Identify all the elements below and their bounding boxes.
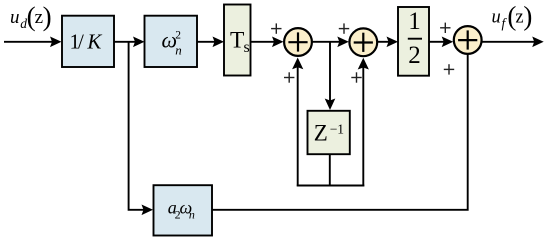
summing junction S3 [454, 26, 482, 54]
wire: Z^-1 output down to bus [329, 154, 331, 185]
wire: S2 to 1/2 block [377, 37, 398, 48]
svg-text:n: n [175, 42, 182, 57]
svg-text:): ) [523, 1, 532, 31]
block Ts [224, 5, 251, 76]
svg-text:u: u [492, 7, 501, 27]
svg-text:−1: −1 [330, 122, 344, 137]
summing junction S2 [349, 28, 377, 56]
wire: a2*omega_n output right and up into S3 bottom [212, 53, 468, 210]
wire: input arrow into 1/K [4, 37, 62, 48]
wire: omega_n^2 to Ts [197, 37, 224, 48]
plus label: S1 bottom input [284, 72, 294, 82]
svg-text:s: s [244, 39, 250, 56]
svg-text:n: n [189, 208, 195, 222]
plus label: S3 bottom input [444, 64, 454, 74]
wire: bottom bus horizontal [297, 185, 365, 187]
svg-text:2: 2 [408, 42, 421, 69]
block Z^-1 [308, 111, 350, 154]
wire: right branch up into S2 bottom [358, 58, 369, 187]
block omega_n^2 [145, 16, 198, 67]
svg-text:Z: Z [314, 121, 328, 146]
block 1/2 [398, 7, 429, 76]
wire: output arrow [482, 37, 544, 48]
block 1/K [62, 16, 114, 67]
plus label: S1 horizontal input [271, 23, 281, 33]
summing junction S1 [284, 28, 312, 56]
node label u_f(z) output [492, 1, 533, 31]
svg-text:T: T [230, 28, 244, 54]
wire: S1 to S2 [312, 37, 349, 48]
svg-text:z: z [515, 8, 523, 28]
plus label: S2 horizontal input [339, 23, 349, 33]
svg-text:u: u [10, 7, 20, 28]
svg-text:2: 2 [175, 29, 181, 41]
plus label: S3 horizontal input [440, 23, 450, 33]
block a2*omega_n [154, 185, 213, 235]
wire: tap down into Z^-1 [325, 42, 336, 110]
wire: left branch up into S1 bottom [292, 58, 303, 187]
wire: 1/K to omega_n^2 [114, 37, 145, 48]
wire: tap junction down and into a2*omega_n block [129, 42, 153, 215]
wire: Ts to summer S1 [251, 37, 284, 48]
node label u_d(z) input [10, 2, 52, 32]
svg-text:): ) [43, 2, 52, 32]
wire: 1/2 to summer S3 [429, 37, 453, 48]
plus label: S2 bottom input [351, 72, 361, 82]
svg-text:1: 1 [408, 8, 421, 35]
